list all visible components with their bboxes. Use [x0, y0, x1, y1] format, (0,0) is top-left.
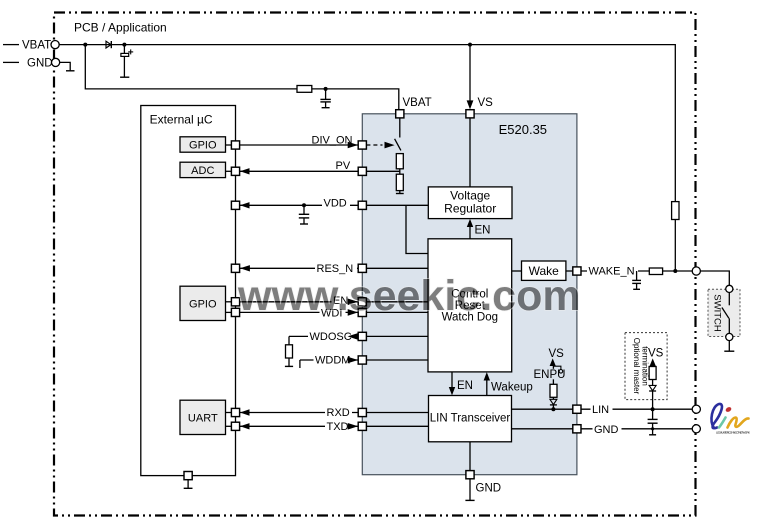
LIN logo: [712, 404, 750, 435]
pin WDDM (chip left): [358, 356, 366, 364]
ground (chip GND): [465, 479, 474, 501]
node J3 (cap C2 tap): [324, 87, 328, 91]
pin DIV_ON (uC): [231, 141, 239, 149]
svg-text:WAKE_N: WAKE_N: [589, 266, 635, 278]
label WAKE_N: [587, 265, 638, 278]
node J4 (VS tap on VBAT rail): [468, 43, 472, 47]
label RXD: [325, 406, 352, 419]
block GPIO (lower): [180, 286, 231, 320]
svg-text:GND: GND: [27, 57, 53, 69]
label EN (line): [332, 294, 350, 307]
pin EN (chip left): [358, 298, 366, 306]
svg-text:WDDM: WDDM: [315, 355, 350, 367]
wire DIV_ON dashed control arrow: [366, 142, 394, 149]
capacitor C5 (LIN to GND): [648, 409, 658, 435]
svg-text:E520.35: E520.35: [499, 122, 547, 137]
svg-text:LIN: LIN: [592, 404, 609, 416]
ground (switch): [724, 341, 734, 352]
wire WDDM pin to control: [366, 359, 428, 361]
resistor R5 (PV divider bottom): [396, 174, 403, 190]
wire WDOSC with left arrow: [289, 335, 358, 337]
wire RES_N pin to control: [366, 267, 428, 269]
node J5 (pull-up to LIN line): [551, 407, 555, 411]
block UART: [180, 400, 231, 434]
wire second rail to VBAT pin: [85, 45, 399, 110]
microcontroller box External uC: [141, 106, 236, 476]
block GPIO (upper): [180, 137, 231, 152]
svg-text:VS: VS: [478, 97, 494, 109]
switch box SWITCH: [708, 289, 740, 336]
wire VS arrow for pull-up: [550, 358, 556, 384]
label LIN: [591, 403, 613, 416]
label VDD: [322, 196, 350, 209]
label VBAT (left terminal): [22, 40, 51, 52]
resistor R1 (series on VBAT branch): [297, 86, 312, 93]
node J2 (cap C1 tap): [122, 43, 126, 47]
pin VDD (chip left): [358, 201, 366, 209]
ground (PV divider): [396, 191, 404, 194]
svg-text:Regulator: Regulator: [444, 202, 496, 216]
resistor R3 (WDOSC to ground): [285, 336, 293, 366]
svg-text:Optional master: Optional master: [632, 338, 641, 395]
pin EN (uC): [231, 298, 239, 306]
pin GND (chip bottom): [466, 471, 474, 479]
resistor R8 (master termination): [649, 367, 656, 380]
label ENPU: [533, 369, 566, 381]
wire GND external: [581, 428, 692, 430]
wire PV: [240, 168, 359, 174]
svg-text:LOCAL INTERCONNECT NETWORK: LOCAL INTERCONNECT NETWORK: [716, 431, 750, 435]
svg-text:Wakeup: Wakeup: [491, 381, 533, 393]
terminal GND circle (right): [692, 425, 700, 433]
wire VDD: [240, 202, 359, 208]
wire RXD: [240, 409, 359, 415]
wire transceiver to GND pin: [512, 428, 573, 430]
label PCB / Application: [74, 21, 167, 35]
wire PV pin to divider: [366, 170, 399, 172]
pin VS (chip top): [466, 110, 474, 118]
wire EN from control to regulator (arrow up): [467, 219, 473, 239]
diode D2 (LIN pull-up series): [550, 397, 557, 409]
pin PV (chip left): [358, 167, 366, 175]
node J6 (WAKE_N to pull-up): [673, 269, 677, 273]
label WDI: [320, 307, 346, 320]
label Wakeup: [491, 381, 533, 393]
svg-text:ADC: ADC: [191, 165, 214, 177]
wire WDI pin to control: [366, 311, 428, 313]
svg-text:VDD: VDD: [324, 197, 347, 209]
svg-text:ENPU: ENPU: [534, 369, 566, 381]
arrow TXD into chip: [348, 423, 358, 430]
label External uC: [150, 113, 213, 127]
svg-text:EN: EN: [475, 225, 491, 237]
resistor R2 (WAKE_N pull-up to VBAT): [672, 202, 679, 220]
svg-text:VS: VS: [549, 348, 565, 360]
wire Wakeup transceiver to control (arrow up): [484, 372, 490, 395]
node J1 (VBAT rail split): [83, 43, 87, 47]
resistor R4 (PV divider top): [396, 154, 403, 169]
pin WDOSC (chip left): [358, 332, 366, 340]
svg-text:Voltage: Voltage: [450, 189, 490, 203]
arrow DIV_ON into chip: [348, 142, 358, 149]
label PV: [336, 160, 351, 172]
pin GND (chip right): [573, 425, 581, 433]
watermark www.seekic.com: [237, 272, 581, 320]
wire WAKE_N external: [581, 270, 692, 272]
block U2 Control Reset Watch Dog: [428, 239, 512, 372]
label GND (chip bottom pin): [476, 482, 502, 494]
wire RES_N: [240, 265, 359, 271]
wire Wake to WAKE_N pin: [566, 270, 573, 272]
label EN (transceiver enable): [457, 380, 473, 392]
pin TXD (chip left): [358, 422, 366, 430]
label VS (termination): [648, 348, 664, 360]
label WDOSC: [308, 330, 352, 343]
pin VBAT (chip top): [396, 110, 404, 118]
block U4 LIN Transceiver: [429, 396, 512, 442]
pin RES_N (uC): [231, 264, 239, 272]
svg-text:GND: GND: [594, 424, 619, 436]
VBAT terminal stub: [3, 44, 19, 46]
terminal WAKE_N circle: [692, 267, 700, 275]
pin LIN (chip right): [573, 405, 581, 413]
pin RXD (uC): [231, 408, 239, 416]
switch S2 contacts: [722, 285, 733, 340]
switch S1 (DIV_ON controlled): [395, 118, 401, 150]
wire WDOSC pin to control: [366, 335, 428, 337]
arrow WDOSC out of chip: [348, 333, 358, 340]
wire WDDM with open stub: [300, 360, 358, 368]
label E520.35: [499, 122, 547, 137]
svg-text:LIN Transceiver: LIN Transceiver: [430, 412, 511, 424]
svg-text:VBAT: VBAT: [22, 40, 51, 52]
svg-text:www.seekic.com: www.seekic.com: [237, 272, 581, 320]
GND terminal stub: [3, 61, 19, 63]
wire TXD pin to transceiver: [366, 425, 428, 427]
arrow EN into chip: [348, 299, 358, 306]
label EN (regulator enable): [475, 225, 491, 237]
capacitor C4 (WAKE_N filter): [632, 271, 641, 289]
wire R2 to WAKE_N line: [674, 220, 676, 272]
diode D3 (master termination): [649, 380, 656, 410]
pin TXD (uC): [231, 422, 239, 430]
wire EN pin to control: [366, 301, 428, 303]
PCB/Application dashed boundary: [54, 13, 696, 516]
label DIV_ON: [312, 135, 353, 147]
label VBAT (top pin): [403, 97, 432, 109]
pin RES_N (chip left): [358, 264, 366, 272]
block U3 Wake: [522, 261, 566, 280]
label RES_N: [315, 262, 357, 275]
wire DIV_ON: [240, 144, 359, 146]
wire VS arrow (termination): [650, 358, 656, 366]
terminal GND circle: [52, 58, 60, 66]
resistor R6 (LIN pull-up): [550, 384, 557, 397]
label GND (external): [593, 423, 622, 436]
capacitor C3 (VDD decoupling): [299, 203, 309, 224]
svg-text:VS: VS: [648, 348, 664, 360]
label GND (left terminal): [27, 57, 53, 69]
wire TXD: [240, 423, 359, 429]
label TXD: [325, 420, 352, 433]
capacitor C2 (filter cap to ground): [320, 89, 330, 108]
pin PV (uC): [231, 167, 239, 175]
wire control to Wake: [512, 270, 522, 272]
pin RXD (chip left): [358, 408, 366, 416]
wire WDI: [240, 311, 359, 313]
svg-text:TXD: TXD: [327, 421, 349, 433]
arrow WDDM into chip: [348, 357, 358, 364]
wire RXD pin to transceiver: [366, 412, 428, 414]
wire divider mid node: [399, 169, 401, 174]
wire EN control to LIN transceiver (arrow down): [449, 372, 455, 396]
svg-text:PCB / Application: PCB / Application: [74, 21, 167, 35]
pin WAKE_N (chip right): [573, 267, 581, 275]
pin WDI (chip left): [358, 308, 366, 316]
IC E520.35 body: [362, 114, 577, 475]
op block U1 Voltage Regulator: [428, 187, 512, 219]
svg-text:GND: GND: [476, 482, 502, 494]
arrow WDI into chip: [348, 309, 358, 316]
block ADC: [180, 162, 231, 177]
pin VDD (uC): [231, 201, 239, 209]
svg-text:GPIO: GPIO: [189, 140, 217, 152]
wire VS pin to Voltage Regulator: [469, 118, 471, 187]
svg-text:UART: UART: [188, 412, 218, 424]
label WDDM: [314, 354, 354, 367]
pin WDI (uC): [231, 308, 239, 316]
ground (uC): [184, 480, 193, 489]
pin DIV_ON (chip left): [358, 141, 366, 149]
label VS (ENPU pull-up supply): [549, 348, 565, 360]
wire to switch: [700, 271, 729, 285]
svg-text:External µC: External µC: [150, 113, 213, 127]
ground (GND terminal): [60, 62, 75, 70]
switch S3 (ENPU switch contact): [553, 366, 562, 373]
wire VBAT rail: [59, 45, 675, 202]
wire LIN external: [581, 408, 692, 410]
svg-text:PV: PV: [336, 160, 351, 172]
svg-text:SWITCH: SWITCH: [712, 294, 723, 332]
optional master termination box: [625, 333, 667, 400]
node J8 (cap to GND line): [651, 427, 654, 430]
wire EN: [240, 301, 359, 303]
wire transceiver to chip GND: [469, 442, 471, 471]
wire transceiver to LIN pin: [512, 408, 573, 410]
svg-text:RXD: RXD: [327, 407, 350, 419]
node J7 (termination to LIN): [651, 407, 655, 411]
svg-text:WDOSC: WDOSC: [310, 331, 352, 343]
wire VDD branch to control block: [406, 205, 428, 253]
terminal LIN circle: [692, 405, 700, 413]
resistor R7 (WAKE_N series): [649, 268, 662, 275]
svg-text:DIV_ON: DIV_ON: [312, 135, 353, 147]
wire VDD pin to regulator: [366, 204, 428, 206]
svg-text:VBAT: VBAT: [403, 97, 432, 109]
diode D1 on VBAT rail: [106, 41, 111, 48]
label VS (top pin): [478, 97, 494, 109]
svg-text:EN: EN: [457, 380, 473, 392]
capacitor C1 (reservoir cap to ground): [120, 45, 133, 78]
pin GND (uC bottom): [184, 472, 192, 480]
wire VS drop: [467, 45, 474, 110]
svg-text:GPIO: GPIO: [189, 298, 217, 310]
terminal VBAT circle: [51, 41, 59, 49]
